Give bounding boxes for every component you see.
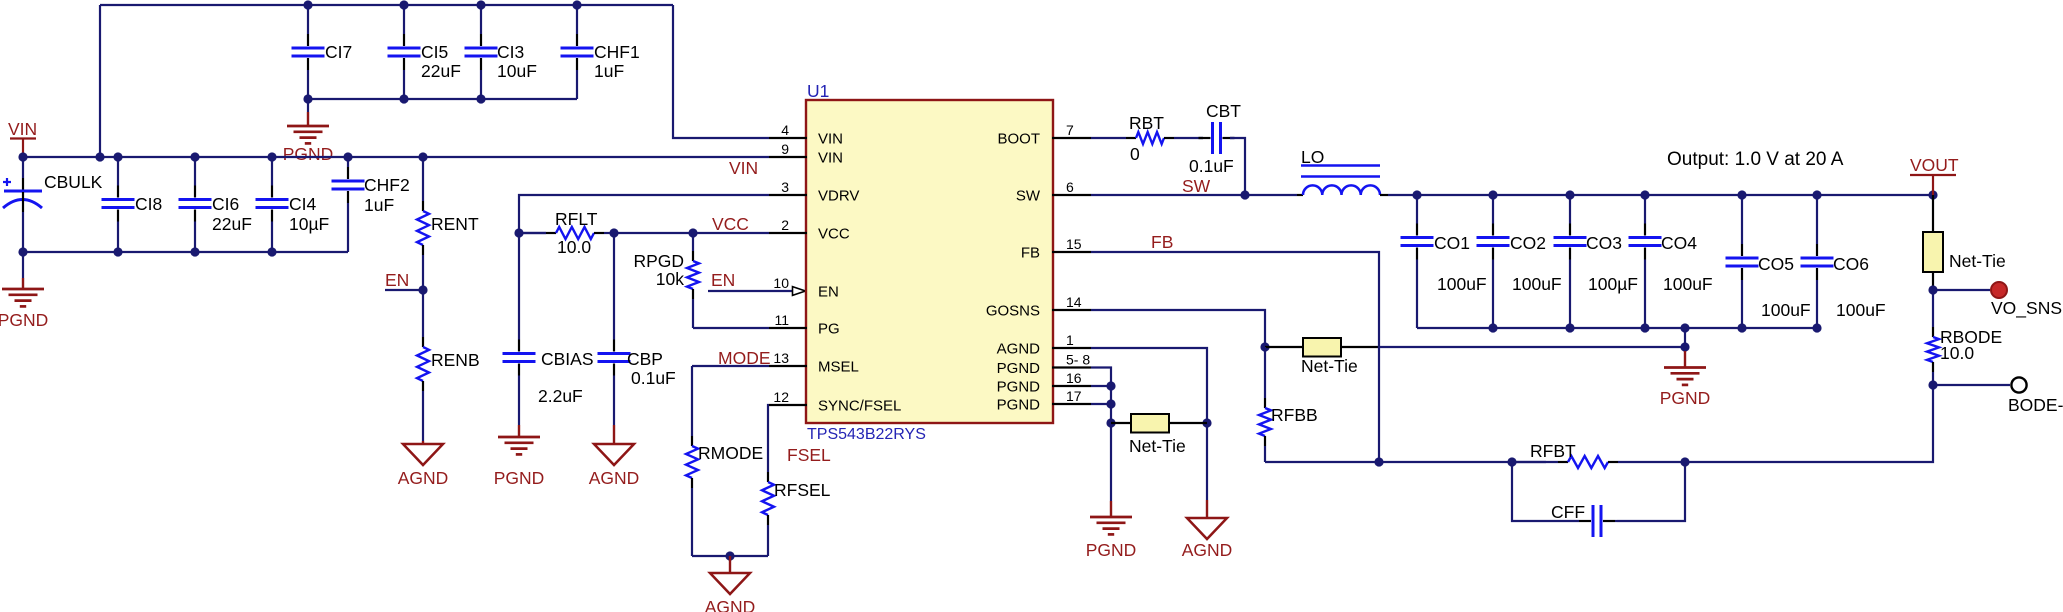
junction <box>267 247 276 256</box>
wire riser right from top rail to U1 pin 4 <box>673 5 769 138</box>
junction <box>1640 190 1649 199</box>
svg-text:FB: FB <box>1021 245 1040 262</box>
svg-text:100uF: 100uF <box>1663 274 1713 294</box>
svg-text:VIN: VIN <box>8 119 37 139</box>
svg-text:EN: EN <box>711 270 735 290</box>
svg-text:10: 10 <box>773 275 789 291</box>
svg-text:AGND: AGND <box>1182 540 1233 560</box>
svg-text:100uF: 100uF <box>1437 274 1487 294</box>
svg-text:TPS543B22RYS: TPS543B22RYS <box>807 426 926 443</box>
ground AGND under RMODE/RFSEL <box>705 556 756 612</box>
svg-text:13: 13 <box>773 350 789 366</box>
resistor RBT 0 <box>1091 113 1203 164</box>
junction <box>18 247 27 256</box>
node FB <box>1151 232 1173 252</box>
node VIN <box>8 119 37 157</box>
junction <box>725 551 734 560</box>
svg-text:EN: EN <box>385 270 409 290</box>
wire to VO_SNS <box>1933 289 1990 291</box>
svg-text:CI5: CI5 <box>421 42 448 62</box>
svg-text:PGND: PGND <box>283 144 334 164</box>
svg-text:Output: 1.0 V at 20 A: Output: 1.0 V at 20 A <box>1667 149 1844 170</box>
wire MSEL to U1 pin 13 <box>692 365 769 367</box>
ground PGND under CI7 <box>283 99 334 164</box>
junction <box>1928 380 1937 389</box>
junction <box>113 152 122 161</box>
svg-text:15: 15 <box>1066 236 1082 252</box>
wire NT3 to output ground <box>1379 346 1685 348</box>
svg-text:Net-Tie: Net-Tie <box>1949 251 2006 271</box>
junction <box>1106 418 1115 427</box>
junction <box>1240 190 1249 199</box>
node VOUT <box>1910 155 1959 195</box>
junction <box>1737 323 1746 332</box>
svg-text:CI8: CI8 <box>135 194 162 214</box>
capacitor CO1 100uF <box>1401 195 1487 328</box>
node SW <box>1182 176 1211 196</box>
junction <box>1260 342 1269 351</box>
junction <box>18 152 27 161</box>
capacitor CI6 22uF <box>179 157 252 252</box>
svg-text:SW: SW <box>1182 176 1211 196</box>
svg-text:CHF2: CHF2 <box>364 175 410 195</box>
svg-text:VCC: VCC <box>712 214 749 234</box>
svg-text:1uF: 1uF <box>364 195 394 215</box>
IC U1 TPS543B22RYS <box>769 81 1091 443</box>
capacitor CFF <box>1551 502 1617 537</box>
svg-text:RENB: RENB <box>431 350 480 370</box>
junction <box>1737 190 1746 199</box>
capacitor CI7 <box>292 5 353 99</box>
net-tie NT1 (VOUT sense) <box>1923 195 2006 290</box>
wire feedback bottom left <box>1265 461 1546 463</box>
capacitor CO5 100uF <box>1726 195 1811 328</box>
junction <box>1488 323 1497 332</box>
svg-text:0.1uF: 0.1uF <box>1189 156 1234 176</box>
junction <box>267 152 276 161</box>
svg-text:CFF: CFF <box>1551 502 1585 522</box>
svg-text:9: 9 <box>781 141 789 157</box>
svg-text:EN: EN <box>818 284 839 301</box>
svg-text:U1: U1 <box>807 81 829 101</box>
capacitor CI3 10uF <box>465 5 537 99</box>
net-tie NT2 (PGND to AGND) <box>1111 414 1207 456</box>
junction <box>1812 190 1821 199</box>
svg-text:10.0: 10.0 <box>1940 343 1974 363</box>
junction <box>113 247 122 256</box>
capacitor CBULK (polarized) <box>3 157 103 252</box>
svg-text:AGND: AGND <box>589 468 640 488</box>
junction <box>303 0 312 9</box>
node VCC <box>712 214 749 234</box>
junction <box>1202 418 1211 427</box>
resistor RFSEL <box>762 472 831 556</box>
resistor RBODE 10.0 <box>1927 290 2002 385</box>
capacitor CO6 100uF <box>1801 195 1886 328</box>
svg-text:22uF: 22uF <box>421 61 461 81</box>
junction <box>95 152 104 161</box>
wire VCC node to U1 pin 2 <box>614 232 769 234</box>
svg-text:PGND: PGND <box>0 310 48 330</box>
node VIN at U1 pin 9 <box>729 158 758 178</box>
wire top cap bank ground rail <box>308 98 577 100</box>
svg-text:MSEL: MSEL <box>818 359 859 376</box>
svg-text:CO5: CO5 <box>1758 254 1794 274</box>
pin 10 input arrow <box>793 287 806 296</box>
wire AGND from U1 pin 1 <box>1091 348 1207 500</box>
svg-text:100uF: 100uF <box>1836 300 1886 320</box>
wire FB from U1 pin 15 <box>1091 252 1379 462</box>
resistor RFBB <box>1259 347 1318 462</box>
wire SW from U1 pin 6 <box>1091 194 1297 196</box>
junction <box>609 228 618 237</box>
junction <box>418 152 427 161</box>
wire feedback bottom right <box>1685 385 1933 462</box>
svg-text:Net-Tie: Net-Tie <box>1301 356 1358 376</box>
capacitor CBP 0.1uF <box>598 233 676 425</box>
svg-text:100uF: 100uF <box>1512 274 1562 294</box>
wire SW/VOUT rail <box>1388 194 1933 196</box>
wire output cap ground rail <box>1417 327 1817 329</box>
junction <box>303 94 312 103</box>
svg-text:Net-Tie: Net-Tie <box>1129 436 1186 456</box>
junction <box>1106 399 1115 408</box>
junction <box>1680 342 1689 351</box>
capacitor CI5 22uF <box>388 5 461 99</box>
svg-text:VIN: VIN <box>818 131 843 148</box>
svg-text:CI3: CI3 <box>497 42 524 62</box>
svg-text:CO3: CO3 <box>1586 233 1622 253</box>
node EN at U1 pin 10 <box>708 270 792 291</box>
svg-text:VIN: VIN <box>729 158 758 178</box>
wire VDRV from U1 pin 3 <box>519 195 769 233</box>
svg-text:CI4: CI4 <box>289 194 317 214</box>
svg-text:GOSNS: GOSNS <box>986 303 1040 320</box>
svg-text:RFBT: RFBT <box>1530 441 1576 461</box>
junction <box>514 228 523 237</box>
junction <box>572 0 581 9</box>
svg-text:22uF: 22uF <box>212 214 252 234</box>
capacitor CBT 0.1uF <box>1189 101 1241 176</box>
junction <box>1412 190 1421 199</box>
svg-text:1uF: 1uF <box>594 61 624 81</box>
svg-text:5- 8: 5- 8 <box>1066 352 1090 368</box>
ground AGND under RENB <box>398 441 449 488</box>
svg-text:LO: LO <box>1301 147 1324 167</box>
svg-text:16: 16 <box>1066 370 1082 386</box>
resistor RFBT <box>1512 441 1685 468</box>
wire VIN rail <box>23 156 769 158</box>
svg-text:10µF: 10µF <box>289 214 329 234</box>
wire to BODE- port <box>1933 384 2010 386</box>
svg-text:PGND: PGND <box>1086 540 1137 560</box>
svg-text:0.1uF: 0.1uF <box>631 368 676 388</box>
capacitor CI4 10uF <box>256 157 330 252</box>
junction <box>399 0 408 9</box>
svg-text:CO1: CO1 <box>1434 233 1470 253</box>
svg-text:PGND: PGND <box>997 379 1041 396</box>
capacitor CBIAS 2.2uF <box>503 233 594 425</box>
svg-text:PGND: PGND <box>997 397 1041 414</box>
svg-text:6: 6 <box>1066 179 1074 195</box>
wire GOSNS from U1 pin 14 <box>1091 310 1265 347</box>
svg-text:VIN: VIN <box>818 150 843 167</box>
ground AGND under CBP <box>589 425 640 488</box>
svg-text:17: 17 <box>1066 388 1082 404</box>
wire VCC left node <box>519 232 546 234</box>
resistor RFLT 10.0 <box>519 209 614 257</box>
svg-text:10uF: 10uF <box>497 61 537 81</box>
resistor RENB <box>417 290 480 441</box>
junction <box>476 0 485 9</box>
junction <box>1507 457 1516 466</box>
junction <box>1640 323 1649 332</box>
svg-text:PGND: PGND <box>1660 388 1711 408</box>
ground AGND for pin 1 <box>1182 500 1233 560</box>
junction <box>1928 190 1937 199</box>
wire output ground tap <box>1684 328 1686 347</box>
node BODE- <box>2008 377 2063 415</box>
capacitor CI8 <box>102 157 163 252</box>
svg-text:VCC: VCC <box>818 226 850 243</box>
svg-text:CO2: CO2 <box>1510 233 1546 253</box>
svg-text:CBULK: CBULK <box>44 172 103 192</box>
svg-text:RFBB: RFBB <box>1271 405 1318 425</box>
wire PGND pins bus <box>1091 368 1111 502</box>
svg-text:VO_SNS: VO_SNS <box>1991 298 2062 319</box>
svg-text:2.2uF: 2.2uF <box>538 386 583 406</box>
svg-text:12: 12 <box>773 389 789 405</box>
capacitor CHF2 1uF <box>332 157 410 252</box>
svg-text:CO6: CO6 <box>1833 254 1869 274</box>
junction <box>476 94 485 103</box>
wire RMODE-RFSEL bottom <box>692 555 768 557</box>
svg-text:VOUT: VOUT <box>1910 155 1959 175</box>
junction <box>688 228 697 237</box>
svg-text:RBT: RBT <box>1129 113 1164 133</box>
node MODE <box>718 348 771 368</box>
capacitor CO4 100uF <box>1629 195 1713 328</box>
junction <box>190 247 199 256</box>
junction <box>418 285 427 294</box>
net-tie NT3 (GOSNS to PGND) <box>1265 338 1379 376</box>
svg-text:100uF: 100uF <box>1761 300 1811 320</box>
svg-text:PG: PG <box>818 321 840 338</box>
capacitor CO2 100uF <box>1477 195 1562 328</box>
svg-text:4: 4 <box>781 122 789 138</box>
node EN (enable divider) <box>385 270 423 290</box>
svg-text:RFLT: RFLT <box>555 209 598 229</box>
capacitor CHF1 1uF <box>561 5 640 99</box>
wire top VIN rail <box>100 4 673 6</box>
wire SYNC/FSEL down from U1 pin 12 <box>768 405 769 472</box>
svg-text:FB: FB <box>1151 232 1173 252</box>
wire PG to U1 pin 11 <box>693 327 769 329</box>
inductor LO <box>1297 147 1388 195</box>
svg-text:AGND: AGND <box>705 597 756 612</box>
junction <box>1565 323 1574 332</box>
wire PGND pin 16 to bus <box>1091 385 1111 387</box>
svg-text:AGND: AGND <box>398 468 449 488</box>
svg-text:FSEL: FSEL <box>787 445 831 465</box>
junction <box>343 152 352 161</box>
svg-text:10k: 10k <box>656 269 684 289</box>
svg-text:100µF: 100µF <box>1588 274 1638 294</box>
wire CFF branch left <box>1512 462 1579 521</box>
ground PGND under CBIAS <box>494 425 545 488</box>
svg-text:CI7: CI7 <box>325 42 352 62</box>
wire CFF branch right <box>1617 462 1685 521</box>
resistor RENT <box>417 157 479 290</box>
svg-text:CBP: CBP <box>627 349 663 369</box>
wire PGND pin 17 to bus <box>1091 403 1111 405</box>
capacitor CO3 100uF <box>1554 195 1638 328</box>
svg-text:BOOT: BOOT <box>997 131 1040 148</box>
ground PGND at output <box>1660 347 1711 408</box>
svg-text:14: 14 <box>1066 294 1082 310</box>
junction <box>1680 323 1689 332</box>
svg-text:CO4: CO4 <box>1661 233 1697 253</box>
junction <box>1928 285 1937 294</box>
svg-text:RFSEL: RFSEL <box>774 480 831 500</box>
svg-text:CBIAS: CBIAS <box>541 349 594 369</box>
junction <box>1106 381 1115 390</box>
svg-text:1: 1 <box>1066 332 1074 348</box>
junction <box>1680 457 1689 466</box>
svg-text:10.0: 10.0 <box>557 237 591 257</box>
resistor RMODE <box>686 366 763 556</box>
svg-text:CBT: CBT <box>1206 101 1241 121</box>
svg-text:0: 0 <box>1130 144 1140 164</box>
svg-text:7: 7 <box>1066 122 1074 138</box>
svg-text:11: 11 <box>774 312 789 328</box>
node VO_SNS <box>1991 282 2062 319</box>
svg-text:VDRV: VDRV <box>818 188 859 205</box>
svg-text:2: 2 <box>781 217 789 233</box>
wire riser left from VIN rail to top rail <box>99 5 101 157</box>
wire input cap bank ground rail <box>23 251 348 253</box>
svg-text:RMODE: RMODE <box>698 443 763 463</box>
svg-text:SW: SW <box>1016 188 1041 205</box>
svg-text:BODE-: BODE- <box>2008 395 2063 415</box>
junction <box>399 94 408 103</box>
svg-text:3: 3 <box>781 179 789 195</box>
resistor RPGD 10k <box>633 233 699 328</box>
svg-text:RENT: RENT <box>431 214 479 234</box>
node FSEL <box>787 445 831 465</box>
junction <box>1812 323 1821 332</box>
svg-text:PGND: PGND <box>494 468 545 488</box>
junction <box>1565 190 1574 199</box>
ground PGND under CBULK <box>0 252 48 330</box>
junction <box>1488 190 1497 199</box>
ground PGND for power pins <box>1086 501 1137 560</box>
svg-text:AGND: AGND <box>997 341 1041 358</box>
wire BOOT down to SW <box>1230 138 1245 195</box>
svg-text:PGND: PGND <box>997 360 1041 377</box>
junction <box>190 152 199 161</box>
svg-text:CHF1: CHF1 <box>594 42 640 62</box>
svg-text:RPGD: RPGD <box>633 251 684 271</box>
svg-text:CI6: CI6 <box>212 194 239 214</box>
svg-text:SYNC/FSEL: SYNC/FSEL <box>818 398 901 415</box>
junction <box>1374 457 1383 466</box>
